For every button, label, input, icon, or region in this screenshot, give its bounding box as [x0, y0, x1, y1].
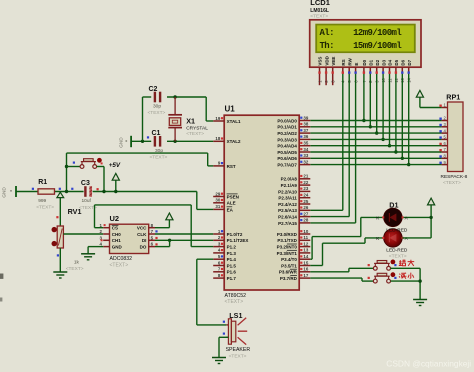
LCD pin 7 [363, 67, 365, 74]
U1 pin 29 PSEN [213, 196, 224, 198]
svg-text:10: 10 [303, 229, 308, 234]
U1 pin 23 P2.2/A10 [299, 190, 310, 192]
U1 pin 11 P3.1/TXD [299, 239, 310, 241]
svg-text:Th: 15m9/100ml: Th: 15m9/100ml [320, 41, 403, 51]
wire P0.0 row to RP1 pin 2 [310, 120, 441, 122]
wire left vertical to reset button [66, 153, 68, 191]
capacitor C3 10uf electrolytic [84, 186, 86, 197]
svg-text:D6: D6 [401, 59, 406, 65]
node junction C1 left [141, 140, 144, 143]
microcontroller U1 AT89C52 body [224, 115, 299, 290]
svg-text:P2.5/A13: P2.5/A13 [278, 208, 297, 213]
svg-text:EA: EA [227, 207, 234, 212]
power +5V arrow above U2 VCC [168, 219, 170, 221]
svg-text:CRYSTAL: CRYSTAL [186, 125, 208, 131]
U2 pin 7 CLK [149, 233, 155, 235]
U1 pin 1 P1.0/T2 [213, 233, 224, 235]
svg-text:C3: C3 [81, 180, 90, 187]
U1 pin 22 P2.1/A9 [299, 184, 310, 186]
svg-text:P2.4/A12: P2.4/A12 [278, 202, 297, 207]
U1 pin 10 P3.0/RXD [299, 233, 310, 235]
resistor pack RP1 RESPACK-8 body [448, 102, 464, 172]
U1 pin 28 P2.7/A15 [299, 222, 310, 224]
svg-text:<TEXT>: <TEXT> [229, 353, 247, 359]
wire LCD D5 to P0.5 net [395, 74, 397, 152]
wire vertical C2-C1 left link [142, 97, 144, 141]
svg-text:P0.4/AD4: P0.4/AD4 [277, 144, 297, 149]
svg-text:RST: RST [227, 164, 236, 169]
U1 pin 31 EA [213, 208, 224, 210]
U2 pin 2 CH0 [103, 233, 109, 235]
LED D2 LED-RED [0, 0, 1, 1]
wire speaker bottom to ground [219, 336, 228, 338]
svg-text:<TEXT>: <TEXT> [389, 253, 407, 259]
svg-text:<TEXT>: <TEXT> [310, 14, 328, 20]
svg-text:Al: 12m9/100ml: Al: 12m9/100ml [320, 28, 403, 38]
svg-text:P3.1/TXD: P3.1/TXD [277, 238, 297, 243]
wire reset top row [67, 152, 208, 154]
svg-text:27: 27 [303, 211, 308, 216]
LCD pin 2 (unconnected) [325, 67, 327, 85]
svg-text:P3.6/WR: P3.6/WR [279, 270, 298, 275]
RP1 pin 8 [442, 157, 448, 159]
svg-text:15: 15 [303, 260, 308, 265]
svg-text:32: 32 [303, 159, 308, 164]
wire P0.4 row to RP1 pin 6 [310, 145, 441, 147]
U1 pin 13 P3.3/INT1 [299, 252, 310, 254]
wire LCD pin 5 to P2.6 [348, 74, 350, 217]
U1 pin 9 RST [213, 165, 224, 167]
svg-text:P0.2/AD2: P0.2/AD2 [277, 131, 297, 136]
svg-text:999: 999 [38, 198, 46, 204]
wire LCD D3 to P0.3 net [382, 74, 384, 139]
wire P0.5 row to RP1 pin 7 [310, 151, 441, 153]
RP1 pin 7 [442, 151, 448, 153]
svg-text:19: 19 [215, 116, 220, 121]
svg-text:P1.6: P1.6 [227, 270, 237, 275]
node junction buttons ground [418, 279, 421, 282]
LCD pin 12 [395, 67, 397, 74]
U1 pin 8 P1.7 [213, 277, 224, 279]
svg-text:D3: D3 [381, 59, 386, 65]
wire P3.7 to button 2 [310, 277, 362, 279]
U1 pin 30 ALE [213, 202, 224, 204]
node junction crystal bottom [173, 140, 176, 143]
svg-text:D4: D4 [388, 59, 393, 65]
svg-text:<TEXT>: <TEXT> [110, 263, 129, 269]
svg-text:11: 11 [303, 235, 308, 240]
svg-text:CS: CS [112, 226, 118, 231]
wire P0.6 row to RP1 pin 8 [310, 157, 441, 159]
svg-text:P3.2/INT0: P3.2/INT0 [277, 245, 298, 250]
ground under RV1 [53, 271, 67, 273]
wire P0.7 row to RP1 pin 9 [310, 164, 441, 166]
RP1 pin 4 [442, 132, 448, 134]
svg-text:14: 14 [303, 254, 308, 259]
svg-text:VSS: VSS [318, 57, 323, 66]
svg-text:P2.2/A10: P2.2/A10 [278, 189, 297, 194]
U1 pin 34 P0.5/AD5 [299, 151, 310, 153]
wire button2 right joins ground vertical [391, 280, 421, 282]
svg-text:P2.1/A9: P2.1/A9 [281, 183, 298, 188]
wire P3.6 to button 1 [310, 271, 349, 273]
capacitor C1 [154, 136, 156, 147]
wire main row to EA [196, 192, 198, 210]
wire RP1 pin1 [420, 107, 442, 109]
svg-text:VEE: VEE [331, 57, 336, 66]
push button 增大 [373, 266, 377, 270]
wire C1 row to XTAL2 [131, 140, 151, 142]
LCD LCD1 LM016L body [310, 20, 421, 67]
svg-text:28: 28 [303, 218, 308, 223]
wire P0.1 row to RP1 pin 3 [310, 126, 441, 128]
svg-text:P2.0/A8: P2.0/A8 [281, 177, 298, 182]
svg-text:38: 38 [303, 122, 308, 127]
svg-text:13: 13 [303, 248, 308, 253]
svg-text:P3.4/T0: P3.4/T0 [281, 257, 297, 262]
svg-text:P3.3/INT1: P3.3/INT1 [277, 251, 298, 256]
LCD pin 13 [401, 67, 403, 74]
svg-text:U2: U2 [110, 214, 120, 223]
push button 减小 [373, 279, 377, 283]
LCD pin 10 [382, 67, 384, 74]
wire U2 DI to P1.1 [155, 239, 213, 241]
LCD pin 3 (unconnected) [332, 67, 334, 85]
wire LED2 anode to +5V vertical [402, 237, 431, 239]
svg-text:P1.3: P1.3 [227, 251, 237, 256]
svg-text:<TEXT>: <TEXT> [66, 266, 84, 272]
U1 pin 4 P1.3 [213, 252, 224, 254]
node junction button-right on main row [102, 190, 105, 193]
svg-text:VCC: VCC [137, 226, 147, 231]
LCD pin 5 [348, 67, 350, 74]
svg-text:D2: D2 [375, 59, 380, 65]
U1 pin 26 P2.5/A13 [299, 209, 310, 211]
wire U2 GND pin to ground [88, 246, 103, 248]
U1 pin 7 P1.6 [213, 271, 224, 273]
U1 pin 14 P3.4/T0 [299, 258, 310, 260]
wire LCD D2 to P0.2 net [376, 74, 378, 133]
capacitor C2 [154, 92, 156, 103]
svg-text:D1: D1 [369, 59, 374, 65]
svg-text:CH0: CH0 [112, 232, 121, 237]
svg-text:P3.5/T1: P3.5/T1 [281, 263, 297, 268]
svg-text:21: 21 [303, 174, 308, 179]
svg-text:C2: C2 [149, 86, 158, 93]
U1 pin 12 P3.2/INT0 [299, 246, 310, 248]
power +5V arrow at RP1 pin 1 [419, 97, 421, 107]
svg-text:P1.0/T2: P1.0/T2 [227, 232, 243, 237]
svg-text:26: 26 [303, 205, 308, 210]
U1 pin 19 XTAL1 [213, 120, 224, 122]
wire reset button left [67, 166, 81, 168]
U1 pin 36 P0.3/AD3 [299, 138, 310, 140]
svg-text:C1: C1 [152, 130, 161, 137]
svg-text:GND: GND [112, 245, 123, 250]
RP1 pin 5 [442, 138, 448, 140]
wire P3.4 to LED D1 cathode [310, 258, 312, 260]
wire P0.2 row to RP1 pin 4 [310, 132, 441, 134]
svg-text:RW: RW [347, 57, 352, 65]
RP1 pin 6 [442, 145, 448, 147]
wire LCD D6 to P0.6 net [401, 74, 403, 158]
wire LCD pin 6 to P2.7 [355, 74, 357, 223]
U1 pin 17 P3.7/RD [299, 277, 310, 279]
RP1 pin 3 [442, 126, 448, 128]
svg-text:30: 30 [215, 198, 220, 203]
svg-text:LED-RED: LED-RED [386, 248, 408, 254]
svg-text:CLK: CLK [137, 232, 147, 237]
wire D1 anode to +5V [402, 216, 431, 218]
svg-text:XTAL1: XTAL1 [227, 119, 241, 124]
svg-text:P0.1/AD1: P0.1/AD1 [277, 125, 297, 130]
svg-text:22: 22 [303, 180, 308, 185]
svg-text:CSDN @cqtianxingkeji: CSDN @cqtianxingkeji [386, 358, 471, 368]
node junction crystal top [173, 95, 176, 98]
U1 pin 39 P0.0/AD0 [299, 120, 310, 122]
svg-text:D0: D0 [362, 59, 367, 65]
svg-text:<TEXT>: <TEXT> [150, 155, 168, 161]
wire U2 VCC to +5V arrow [155, 227, 169, 229]
svg-text:P3.0/RXD: P3.0/RXD [277, 232, 298, 237]
svg-text:CH1: CH1 [112, 238, 121, 243]
svg-text:ALE: ALE [227, 201, 236, 206]
wire LCD D1 to P0.1 net [369, 74, 371, 127]
svg-text:RP1: RP1 [446, 93, 460, 102]
svg-text:24: 24 [303, 193, 308, 198]
U1 pin 2 P1.1/T2EX [213, 239, 224, 241]
RP1 pin 9 [442, 164, 448, 166]
RP1 pin 1 [442, 107, 448, 109]
wire main reset row [16, 191, 84, 193]
svg-text:DO: DO [140, 245, 147, 250]
wire RV1 bottom to ground [59, 248, 61, 272]
svg-text:P2.3/A11: P2.3/A11 [278, 196, 297, 201]
svg-text:+5V: +5V [109, 162, 121, 169]
U1 pin 38 P0.1/AD1 [299, 126, 310, 128]
wire LCD pin 4 to P2.5 [342, 74, 344, 210]
U2 pin 3 CH1 [103, 239, 109, 241]
svg-text:12: 12 [303, 241, 308, 246]
U1 pin 33 P0.6/AD6 [299, 157, 310, 159]
node junction DI/DO [168, 239, 171, 242]
U2 pin 8 VCC [149, 227, 155, 229]
U1 pin 32 P0.7/AD7 [299, 164, 310, 166]
crystal X1 [174, 97, 176, 115]
RP1 pin 2 [442, 120, 448, 122]
svg-text:P1.4: P1.4 [227, 257, 237, 262]
node junction left vertical bottom [65, 190, 68, 193]
node junction reset button left [65, 165, 68, 168]
svg-text:LCD1: LCD1 [310, 0, 330, 7]
svg-text:<TEXT>: <TEXT> [225, 299, 244, 305]
svg-text:P0.7/AD7: P0.7/AD7 [277, 163, 297, 168]
svg-text:GND: GND [118, 137, 123, 148]
LCD pin 9 [376, 67, 378, 74]
svg-text:RV1: RV1 [68, 207, 82, 216]
svg-text:U1: U1 [225, 105, 236, 114]
U1 pin 27 P2.6/A14 [299, 216, 310, 218]
svg-text:37: 37 [303, 128, 308, 133]
svg-text:17: 17 [303, 273, 308, 278]
svg-text:P0.0/AD0: P0.0/AD0 [277, 118, 297, 123]
svg-text:P2.7/A15: P2.7/A15 [278, 221, 297, 226]
svg-text:1k: 1k [74, 260, 80, 266]
wire RV1 top to node [59, 192, 61, 226]
wire U2 CS to P1.2 [95, 227, 104, 229]
wire RV1 wiper to U2 CH0 [63, 233, 103, 235]
svg-text:P2.6/A14: P2.6/A14 [278, 215, 297, 220]
node junction LED +5V [429, 216, 432, 219]
svg-text:P0.5/AD5: P0.5/AD5 [277, 150, 297, 155]
svg-text:ADC0832: ADC0832 [110, 256, 133, 262]
ground under U2 [81, 253, 95, 255]
U2 pin 4 GND [103, 246, 109, 248]
wire LCD D7 to P0.7 net [408, 74, 410, 165]
svg-text:P0.6/AD6: P0.6/AD6 [277, 156, 297, 161]
svg-text:10uf: 10uf [82, 198, 92, 204]
ground under speaker [212, 357, 226, 359]
wire U2 DO joins DI [155, 246, 170, 248]
wire U2 CLK to P1.0 [155, 233, 213, 235]
svg-text:34: 34 [303, 147, 308, 152]
U1 pin 3 P1.2 [213, 246, 224, 248]
LCD pin 11 [389, 67, 391, 74]
svg-text:31: 31 [215, 204, 220, 209]
svg-text:39: 39 [303, 115, 308, 120]
U1 pin 35 P0.4/AD4 [299, 145, 310, 147]
svg-text:D5: D5 [394, 59, 399, 65]
svg-text:29: 29 [215, 191, 220, 196]
svg-text:RS: RS [341, 59, 346, 65]
svg-text:D7: D7 [407, 59, 412, 65]
node junction +5V [114, 190, 117, 193]
U2 CH1 pin end marker [101, 239, 103, 241]
U1 pin 24 P2.3/A11 [299, 197, 310, 199]
svg-text:P3.7/RD: P3.7/RD [280, 276, 298, 281]
wire P0.3 row to RP1 pin 5 [310, 138, 441, 140]
svg-text:35: 35 [303, 141, 308, 146]
svg-text:<TEXT>: <TEXT> [443, 180, 461, 186]
svg-text:<TEXT>: <TEXT> [186, 131, 204, 137]
svg-text:33: 33 [303, 153, 308, 158]
svg-text:30p: 30p [153, 104, 161, 110]
svg-text:18: 18 [215, 136, 220, 141]
U2 pin 6 DO [149, 246, 155, 248]
svg-text:GND: GND [2, 187, 7, 198]
push button (reset) [80, 165, 84, 169]
wire P1.4 to speaker [197, 258, 213, 260]
svg-text:23: 23 [303, 186, 308, 191]
svg-text:PSEN: PSEN [227, 194, 239, 199]
wire LCD D0 to P0.0 net [363, 74, 365, 121]
wire P3.5 to LED 2 cathode [310, 265, 322, 267]
svg-text:P1.5: P1.5 [227, 263, 237, 268]
svg-text:E: E [354, 63, 359, 66]
LCD pin 1 (unconnected) [319, 67, 321, 85]
wire reset button right down to main row [97, 166, 104, 168]
svg-text:XTAL2: XTAL2 [227, 139, 241, 144]
potentiometer RV1 body [57, 226, 63, 248]
svg-text:LED-RED: LED-RED [386, 227, 408, 233]
svg-text:36: 36 [303, 134, 308, 139]
svg-text:AT89C52: AT89C52 [225, 293, 247, 299]
svg-text:P1.7: P1.7 [227, 276, 237, 281]
LCD pin 4 [342, 67, 344, 74]
svg-text:<TEXT>: <TEXT> [148, 110, 166, 116]
LCD pin 8 [369, 67, 371, 74]
U2 pin 5 DI [149, 239, 155, 241]
svg-text:X1: X1 [186, 117, 195, 126]
ADC U2 ADC0832 body [110, 224, 149, 253]
wire C2 row to XTAL1 [205, 97, 207, 121]
svg-text:16: 16 [303, 267, 308, 272]
svg-text:P0.3/AD3: P0.3/AD3 [277, 137, 297, 142]
U1 pin 6 P1.5 [213, 265, 224, 267]
U1 pin 37 P0.2/AD2 [299, 132, 310, 134]
U1 pin 25 P2.4/A12 [299, 203, 310, 205]
svg-text:P1.1/T2EX: P1.1/T2EX [227, 238, 249, 243]
svg-text:SPEAKER: SPEAKER [226, 347, 251, 353]
U1 pin 5 P1.4 [213, 258, 224, 260]
power +5V arrow [115, 180, 117, 191]
power +5V arrow above LEDs [430, 205, 432, 218]
U1 pin 18 XTAL2 [213, 140, 224, 142]
LCD pin 6 [355, 67, 357, 74]
svg-text:RESPACK-8: RESPACK-8 [441, 174, 468, 180]
svg-text:<TEXT>: <TEXT> [36, 205, 54, 211]
edge artifact mark [0, 274, 3, 279]
U1 pin 21 P2.0/A8 [299, 178, 310, 180]
U2 pin 1 CS [103, 227, 109, 229]
resistor R1 [38, 189, 55, 194]
U1 pin 16 P3.6/WR [299, 271, 310, 273]
ground under buttons [413, 299, 427, 301]
wire button1 right to ground vertical [391, 267, 421, 269]
wire C2 row [143, 96, 152, 98]
svg-text:P1.2: P1.2 [227, 245, 237, 250]
svg-text:LM016L: LM016L [310, 8, 329, 14]
LCD pin 14 [408, 67, 410, 74]
U1 pin 15 P3.5/T1 [299, 265, 310, 267]
svg-text:DI: DI [142, 238, 147, 243]
wire LCD D4 to P0.4 net [389, 74, 391, 146]
svg-text:VDD: VDD [324, 55, 329, 65]
svg-text:25: 25 [303, 199, 308, 204]
svg-text:R1: R1 [38, 179, 47, 186]
